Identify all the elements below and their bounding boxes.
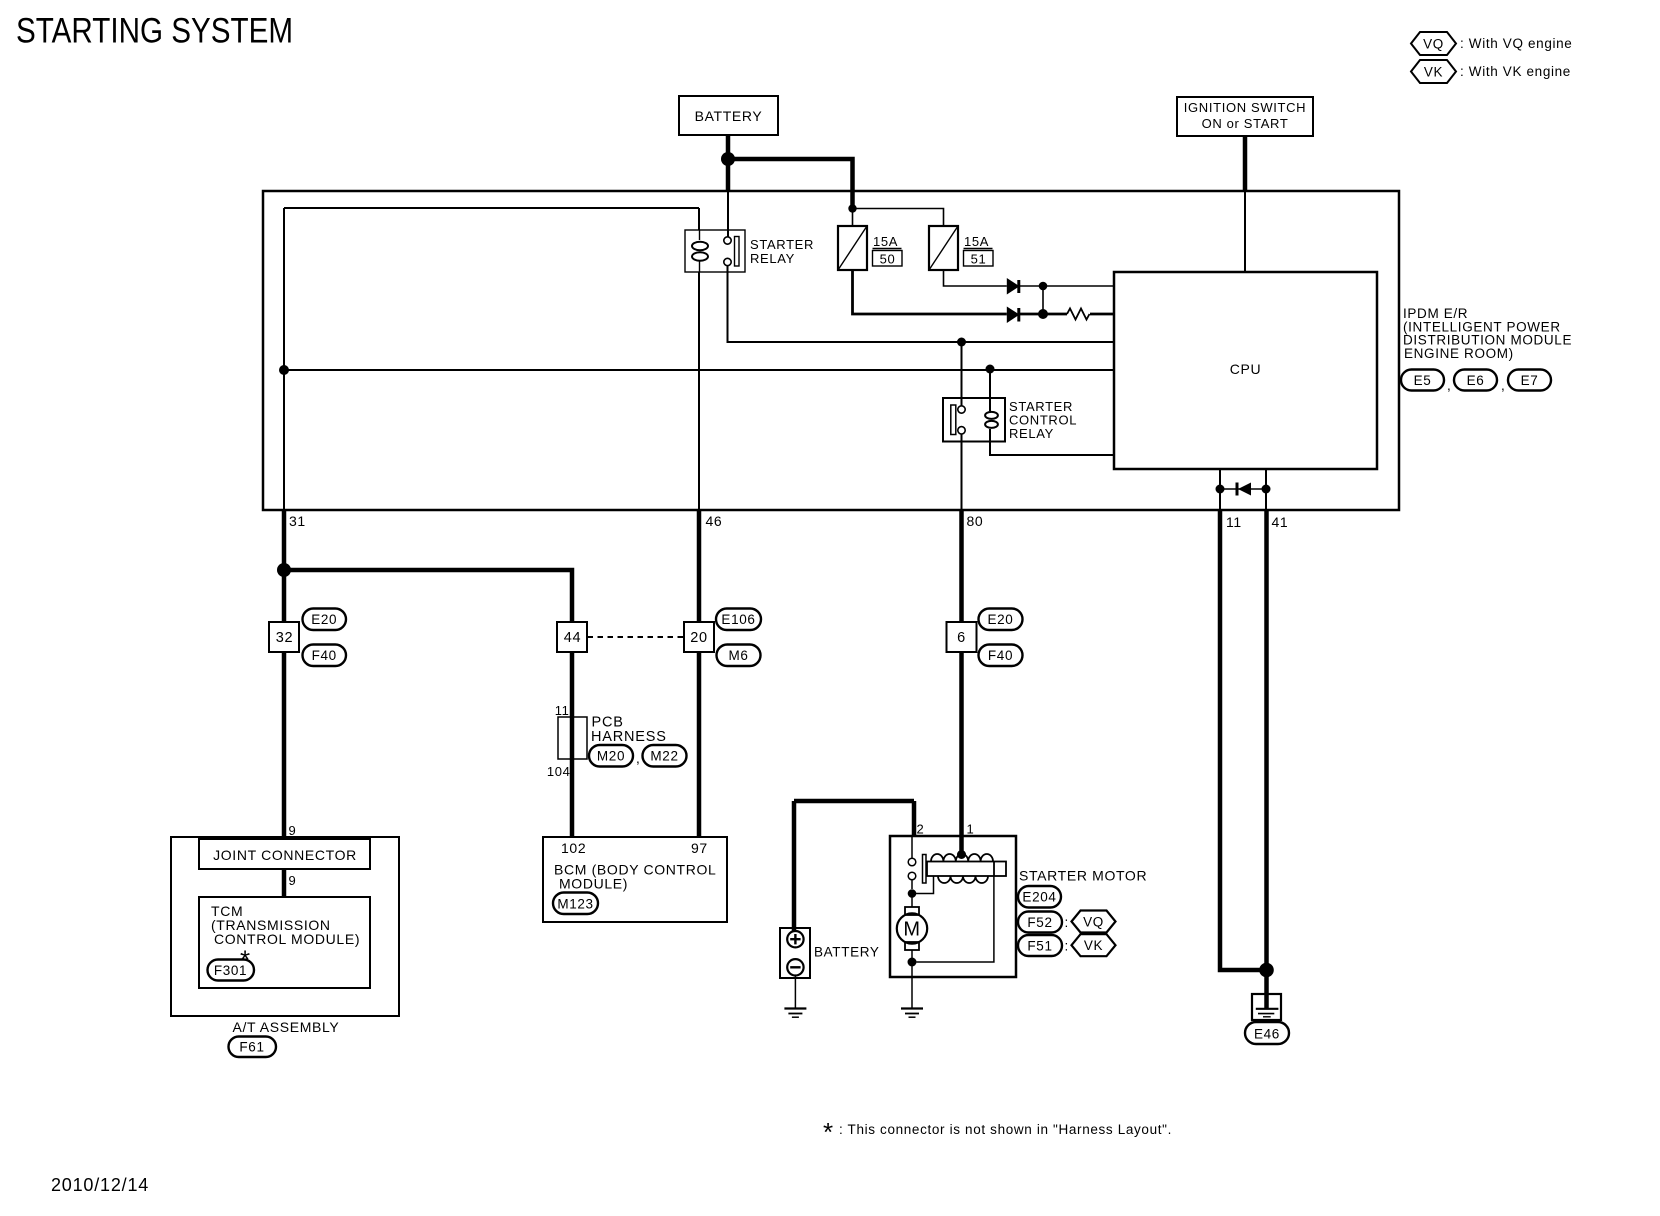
svg-text:STARTER: STARTER bbox=[750, 237, 814, 252]
svg-text::: : bbox=[1065, 939, 1069, 954]
svg-text:A/T ASSEMBLY: A/T ASSEMBLY bbox=[233, 1019, 340, 1035]
svg-text:HARNESS: HARNESS bbox=[591, 729, 667, 745]
svg-text:51: 51 bbox=[971, 252, 987, 267]
svg-text:: With VQ engine: : With VQ engine bbox=[1460, 36, 1572, 51]
svg-text:E7: E7 bbox=[1521, 373, 1539, 388]
svg-text:31: 31 bbox=[289, 513, 306, 529]
svg-text:M: M bbox=[903, 919, 920, 941]
svg-text:15A: 15A bbox=[964, 234, 989, 249]
svg-text:9: 9 bbox=[289, 873, 297, 888]
svg-text:E204: E204 bbox=[1022, 890, 1056, 905]
svg-text:BATTERY: BATTERY bbox=[695, 108, 763, 124]
svg-text:JOINT CONNECTOR: JOINT CONNECTOR bbox=[213, 847, 357, 863]
svg-text:104: 104 bbox=[547, 764, 571, 779]
svg-text:RELAY: RELAY bbox=[750, 251, 795, 266]
svg-text:CPU: CPU bbox=[1230, 361, 1262, 377]
svg-text:97: 97 bbox=[691, 840, 708, 856]
svg-text:1: 1 bbox=[967, 822, 975, 837]
svg-text:STARTING SYSTEM: STARTING SYSTEM bbox=[16, 11, 293, 51]
svg-text:VK: VK bbox=[1084, 938, 1103, 953]
svg-text:STARTER MOTOR: STARTER MOTOR bbox=[1019, 868, 1147, 884]
svg-text:CONTROL MODULE): CONTROL MODULE) bbox=[214, 931, 360, 947]
svg-text:F61: F61 bbox=[239, 1040, 264, 1055]
svg-text:VQ: VQ bbox=[1423, 37, 1444, 52]
svg-text:E20: E20 bbox=[311, 612, 337, 627]
svg-text:41: 41 bbox=[1272, 514, 1289, 530]
svg-text:: With VK engine: : With VK engine bbox=[1460, 64, 1571, 79]
svg-text:E46: E46 bbox=[1254, 1027, 1280, 1042]
svg-text:F40: F40 bbox=[312, 648, 337, 663]
svg-text:MODULE): MODULE) bbox=[559, 876, 628, 892]
svg-text:,: , bbox=[636, 751, 640, 766]
svg-text:E5: E5 bbox=[1414, 373, 1432, 388]
svg-text:E20: E20 bbox=[988, 612, 1014, 627]
svg-text:32: 32 bbox=[276, 630, 293, 646]
svg-text:F52: F52 bbox=[1027, 915, 1052, 930]
svg-text:50: 50 bbox=[880, 252, 896, 267]
svg-text:,: , bbox=[1447, 378, 1451, 393]
svg-text::: : bbox=[1065, 915, 1069, 930]
svg-text:F51: F51 bbox=[1027, 939, 1052, 954]
svg-text:E6: E6 bbox=[1467, 373, 1485, 388]
svg-text:9: 9 bbox=[289, 823, 297, 838]
svg-text:80: 80 bbox=[967, 513, 984, 529]
svg-text:IGNITION SWITCH: IGNITION SWITCH bbox=[1184, 100, 1306, 115]
svg-text:ENGINE ROOM): ENGINE ROOM) bbox=[1404, 346, 1514, 361]
svg-text:46: 46 bbox=[706, 513, 723, 529]
svg-text:11: 11 bbox=[555, 703, 570, 718]
svg-text:*: * bbox=[823, 1117, 833, 1147]
svg-text:15A: 15A bbox=[873, 234, 898, 249]
svg-text:M20: M20 bbox=[597, 749, 625, 764]
svg-text:: This connector is not shown: : This connector is not shown in "Harnes… bbox=[839, 1122, 1172, 1137]
svg-text:20: 20 bbox=[690, 630, 707, 646]
svg-text:ON or START: ON or START bbox=[1202, 116, 1289, 131]
svg-text:E106: E106 bbox=[721, 612, 755, 627]
svg-text:11: 11 bbox=[1226, 514, 1242, 530]
svg-text:F301: F301 bbox=[214, 963, 247, 978]
svg-text:BATTERY: BATTERY bbox=[814, 945, 880, 960]
svg-text:102: 102 bbox=[561, 840, 586, 856]
svg-text:2010/12/14: 2010/12/14 bbox=[51, 1175, 149, 1195]
svg-text:F40: F40 bbox=[988, 648, 1013, 663]
svg-text:,: , bbox=[1501, 378, 1505, 393]
svg-text:RELAY: RELAY bbox=[1009, 426, 1054, 441]
svg-text:VK: VK bbox=[1424, 65, 1443, 80]
svg-text:6: 6 bbox=[957, 630, 966, 646]
svg-text:2: 2 bbox=[917, 822, 925, 837]
svg-text:44: 44 bbox=[564, 630, 581, 646]
svg-text:M123: M123 bbox=[557, 897, 593, 912]
svg-text:M6: M6 bbox=[728, 648, 748, 663]
svg-text:VQ: VQ bbox=[1083, 915, 1104, 930]
svg-text:M22: M22 bbox=[650, 749, 678, 764]
